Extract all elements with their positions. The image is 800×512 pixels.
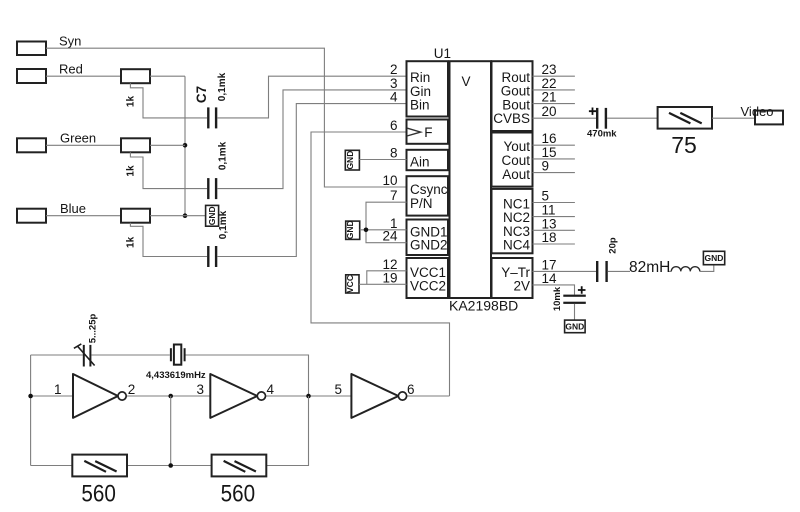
wire 75 to Video [712,117,755,119]
svg-text:GND2: GND2 [410,237,448,252]
svg-text:4: 4 [267,382,275,397]
capacitor 470mk [589,108,607,129]
node junction mid [168,394,173,399]
wire green tap [130,152,207,188]
resistor 75 [658,107,712,158]
wire pin 1 [360,229,407,231]
ground GND box (pin 8) [345,150,360,170]
inverter U2B [210,374,265,418]
wire green cap to pin 3 [217,90,406,189]
svg-text:U1: U1 [434,46,451,61]
wire Syn to pin 10 [46,48,407,187]
svg-text:Blue: Blue [60,201,86,216]
wire pin 17 [533,270,597,272]
ground GND box (10mk) [565,320,586,333]
svg-text:20: 20 [542,104,557,119]
wire Green input [46,144,121,146]
svg-text:Green: Green [60,131,96,146]
svg-text:Syn: Syn [59,33,81,48]
svg-text:10mk: 10mk [552,286,563,311]
wire red resistor output [150,75,185,77]
capacitor 20p [596,261,608,282]
svg-text:470mk: 470mk [587,128,617,139]
connector Red [17,62,83,83]
node junction gnd [364,228,369,233]
stub pin 15 [533,158,575,160]
wire blue cap to pin 4 [217,104,406,257]
node junction right [306,394,311,399]
svg-text:NC1: NC1 [503,196,530,211]
wire Red input [46,75,121,77]
svg-text:Cout: Cout [501,153,530,168]
stub pin 9 [533,172,575,174]
resistor 1k (blue) [121,209,150,248]
svg-text:F: F [424,125,432,140]
trimmer capacitor 5...25p [74,344,95,367]
wire pin 7 [366,202,407,243]
svg-text:4: 4 [390,90,398,105]
wire Blue input [46,215,121,217]
svg-text:82mH: 82mH [629,259,670,276]
svg-text:GND: GND [565,322,584,332]
ground GND box (inductor) [703,251,724,264]
svg-text:560: 560 [81,481,116,508]
svg-text:7: 7 [390,188,398,203]
wire cap to 75 [607,117,658,119]
pin numbers left [382,62,398,285]
svg-text:1k: 1k [126,236,137,248]
resistor 1k (red) [121,69,150,107]
stub pin 13 [533,229,575,231]
wire blue resistor output [150,215,185,217]
svg-text:10: 10 [382,173,397,188]
wire top branch [31,355,309,396]
svg-text:3: 3 [196,382,204,397]
svg-text:Aout: Aout [502,167,530,182]
svg-text:VCC: VCC [345,275,355,293]
svg-text:1k: 1k [126,165,137,177]
wire cap to GND [574,304,576,320]
capacitor 0,1mk (green) [207,178,217,199]
capacitor C7 0,1mk (red) [207,107,217,128]
svg-text:Bin: Bin [410,98,430,113]
ground GND box (pins 1,24) [345,220,360,239]
connector Syn [17,33,81,55]
svg-text:GND: GND [345,151,355,170]
svg-text:2V: 2V [513,279,530,294]
connector Blue [17,201,86,223]
wire to GND [185,215,206,217]
capacitor 0,1mk (blue) [207,246,217,267]
resistor 560 (left) [72,455,127,508]
svg-text:14: 14 [542,271,558,286]
svg-text:GND: GND [705,253,724,263]
wire mid rail [170,396,172,466]
svg-text:21: 21 [542,90,557,105]
stub pin 18 [533,243,575,245]
svg-text:5...25p: 5...25p [88,314,99,344]
stub pin 21 [533,103,575,105]
svg-text:6: 6 [407,382,415,397]
svg-text:6: 6 [390,118,398,133]
svg-text:V: V [462,74,471,89]
wire pin 14 [533,285,575,295]
stub pin 11 [533,216,575,218]
wire red cap to pin 2 [217,76,406,118]
svg-text:75: 75 [671,132,697,158]
svg-text:2: 2 [128,382,136,397]
svg-text:Video: Video [741,104,774,119]
svg-text:8: 8 [390,146,398,161]
svg-text:NC3: NC3 [503,224,530,239]
wire blue tap [130,223,207,257]
resistor 560 (right) [212,455,267,508]
svg-text:NC2: NC2 [503,210,530,225]
node junction green [183,143,188,148]
wire red tap [130,83,207,118]
resistor 1k (green) [121,138,150,176]
svg-text:CVBS: CVBS [493,111,530,126]
svg-text:KA2198BD: KA2198BD [449,298,518,314]
wire bottom branch [31,396,309,466]
stub pin 5 [533,202,575,204]
svg-text:GND: GND [207,206,217,225]
pin numbers right [542,62,558,286]
svg-text:1k: 1k [126,96,137,108]
svg-text:Red: Red [59,62,83,77]
svg-text:560: 560 [221,481,256,508]
svg-text:Yout: Yout [503,139,530,154]
svg-text:P/N: P/N [410,196,433,211]
svg-text:20p: 20p [608,237,619,254]
wire cap to inductor [608,270,672,272]
inductor 82mH [671,267,700,272]
wire green resistor output [150,144,185,146]
node junction bottom [168,463,173,468]
svg-text:NC4: NC4 [503,238,530,253]
svg-text:1: 1 [54,382,62,397]
capacitor 10mk [563,286,586,304]
svg-text:4,433619mHz: 4,433619mHz [146,370,206,381]
svg-text:GND: GND [345,220,355,239]
inverter U2A [73,374,126,418]
wire pin 19 [359,283,407,285]
stub pin 22 [533,89,575,91]
svg-text:19: 19 [382,270,397,285]
stub pin 16 [533,144,575,146]
svg-text:0,1mk: 0,1mk [217,141,228,170]
connector Video [741,104,784,125]
svg-text:5: 5 [542,189,550,204]
svg-text:9: 9 [542,159,550,174]
svg-text:C7: C7 [194,86,209,103]
wire oscillator main line [31,395,450,397]
svg-text:24: 24 [382,229,398,244]
wire ground rail [184,76,186,216]
svg-text:Ain: Ain [410,154,430,169]
wire inductor to GND [700,265,714,272]
svg-text:VCC2: VCC2 [410,278,446,293]
node junction blue [183,213,188,218]
inverter U2C [351,374,406,418]
svg-text:18: 18 [542,230,557,245]
ground GND box (rail) [206,205,219,226]
svg-text:5: 5 [334,382,342,397]
connector Green [17,131,96,153]
power VCC box [345,275,359,293]
IC U1 KA2198BD [407,46,533,314]
wire pin 12 [367,271,407,285]
wire pin 6 net [311,132,450,396]
svg-text:Csync: Csync [410,182,448,197]
svg-text:0,1mk: 0,1mk [218,210,229,239]
stub pin 23 [533,75,575,77]
wire left rail [30,355,32,466]
wire pin 20 CVBS [533,117,597,119]
node junction osc left [28,394,33,399]
svg-text:0,1mk: 0,1mk [217,72,228,101]
wire pin 8 [359,159,406,161]
crystal 4,433619mHz [170,345,186,365]
